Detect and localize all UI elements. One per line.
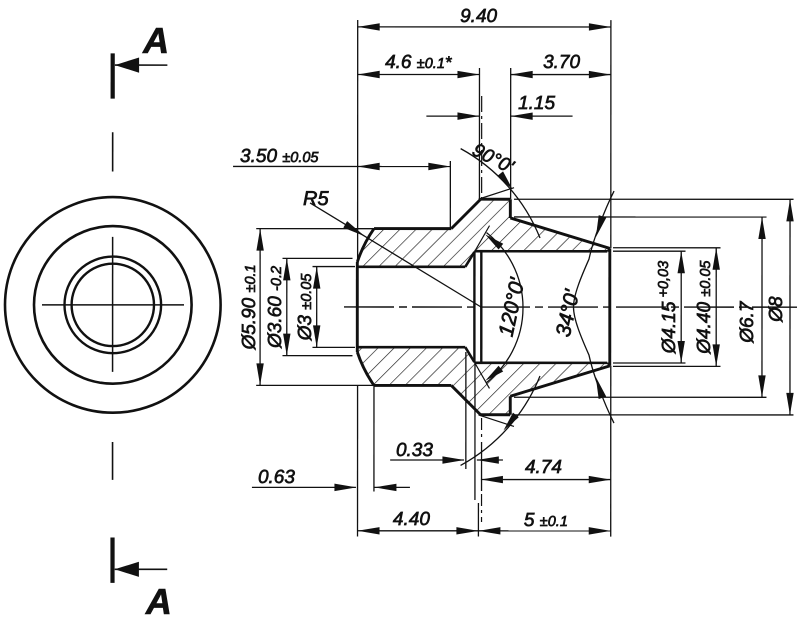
dash-dot ext x=481.6 down [481, 418, 483, 522]
ext line x=479.4 for 4.6 [478, 68, 480, 199]
90 deg flank thin line [479, 188, 514, 200]
dimension 9.40 [358, 26, 611, 28]
90 deg arc [461, 149, 540, 238]
dimension dia4.40 [715, 248, 717, 367]
ext dia6.7 top [514, 216, 767, 218]
bore dia4.15 top line [474, 250, 607, 253]
ext dia4.15 bottom [613, 362, 686, 364]
svg-text:A: A [142, 20, 169, 61]
120 cone chamfer top [465, 252, 474, 267]
34 deg dimension arc [573, 191, 614, 423]
ext dia3.60 bottom [282, 355, 352, 357]
ext line x=478.5 for 4.40/5 junction [477, 503, 479, 537]
svg-text:3.70: 3.70 [543, 52, 580, 73]
svg-text:0.33: 0.33 [396, 440, 433, 461]
cutting plane centerline dash lower [112, 442, 114, 480]
section marker bottom: arrowhead [115, 562, 139, 577]
ext line x=510.6 for 3.70 [510, 68, 512, 199]
120 deg dimension arc [486, 233, 523, 383]
svg-text:1.15: 1.15 [518, 93, 555, 114]
ext line x=479.4 down [474, 363, 476, 500]
dimension 0.33 [390, 459, 464, 461]
ext dia8 top [514, 198, 794, 200]
left view horizontal centerline [42, 304, 184, 306]
R5 leader [310, 203, 480, 307]
left face [356, 262, 359, 352]
right face [608, 248, 611, 365]
vertical drop top [509, 199, 512, 218]
dimension dia3 [316, 267, 318, 348]
120 arc bottom arrowhead [485, 366, 503, 381]
ext line left face up [357, 20, 359, 262]
main horizontal centerline [344, 306, 797, 308]
peak flat bottom [481, 413, 511, 416]
ext line x=374 down [373, 385, 375, 491]
ext dia5.90 bottom [256, 384, 374, 386]
section marker top: arrow line [115, 64, 168, 66]
34 arc top arrowhead [596, 215, 607, 237]
ext line x=481.6 for 4.74 [481, 442, 483, 491]
mouth chamfer top [607, 249, 610, 252]
dimension dia3.60 [286, 258, 288, 355]
svg-text:4.40: 4.40 [393, 509, 430, 530]
dimension 5 +-0.1 [478, 530, 610, 532]
shoulder wall x=481.3 [480, 251, 482, 363]
svg-text:Ø4.40 ±0.05: Ø4.40 ±0.05 [694, 260, 715, 355]
dimension dia5.90 [259, 229, 261, 386]
left view circle dia 5.90 [34, 226, 192, 384]
ext dia4.15 top [613, 250, 686, 252]
90 deg flank thin line bottom [479, 415, 514, 427]
dimension dia6.7 [761, 217, 763, 397]
ext line right face down [610, 366, 612, 537]
svg-text:0.63: 0.63 [258, 467, 295, 488]
90 deg bottom arrowhead [503, 413, 518, 431]
120 cone chamfer bottom [465, 347, 474, 362]
svg-text:A: A [145, 581, 172, 617]
ext dia8 bottom [514, 414, 794, 416]
bore dia3 top line [357, 265, 465, 268]
ext dia3 top [313, 266, 356, 268]
dash-dot ext x=481.6 [481, 96, 483, 199]
peak flat top (dia 8) [481, 198, 511, 201]
120 arc top arrowhead [485, 234, 503, 249]
bottom flat of body [374, 384, 451, 387]
svg-text:5 ±0.1: 5 ±0.1 [524, 510, 568, 531]
svg-text:4.74: 4.74 [525, 457, 562, 478]
120 flank ext line top [474, 226, 489, 252]
svg-text:9.40: 9.40 [460, 6, 497, 27]
shoulder wall x=474.4 [473, 252, 475, 362]
dimension 3.70 [511, 74, 611, 76]
svg-text:4.6 ±0.1*: 4.6 ±0.1* [385, 52, 453, 73]
hatched upper wall [357, 199, 610, 267]
left view vertical centerline [112, 237, 114, 372]
ext dia3 bottom [312, 346, 355, 348]
svg-text:Ø3 ±0.05: Ø3 ±0.05 [295, 273, 316, 342]
bore dia4.15 bottom line [474, 362, 607, 365]
dimension dia4.15 [680, 251, 682, 363]
left view circle dia 3.60 [64, 257, 161, 354]
svg-text:Ø8: Ø8 [766, 296, 787, 323]
hatched lower wall [357, 347, 610, 415]
R5 corner arc top [357, 229, 374, 262]
bore dia3 bottom line [357, 346, 465, 349]
dimension 4.40 [358, 530, 479, 532]
section marker bottom: arrow line [115, 568, 167, 570]
ext dia4.40 top [613, 247, 720, 249]
ext line right face up [610, 20, 612, 248]
120 flank ext line bottom [474, 362, 489, 388]
90 deg arc bottom mirror [461, 376, 540, 465]
ext dia5.90 top [256, 228, 374, 230]
ext dia6.7 bottom [514, 396, 766, 398]
dimension 3.50 +-0.05 [233, 165, 450, 167]
34 arc bottom arrowhead [596, 377, 607, 399]
dimension 1.15 (arrows outside) [426, 115, 479, 117]
R5 corner arc bottom [357, 352, 374, 385]
svg-text:3.50 ±0.05: 3.50 ±0.05 [240, 146, 319, 167]
dimension dia8 [789, 199, 791, 415]
svg-text:Ø4.15 +0,03: Ø4.15 +0,03 [656, 261, 680, 354]
90 deg arc arrowhead [497, 171, 512, 189]
45deg fall bottom [451, 385, 480, 414]
cutting plane centerline dash upper [112, 132, 114, 171]
dimension 4.74 [481, 479, 611, 481]
dimension 4.6 +-0.1* [358, 73, 480, 75]
45deg rise top [451, 199, 480, 228]
svg-text:Ø5.90 ±0.1: Ø5.90 ±0.1 [239, 264, 260, 350]
taper top [510, 218, 610, 248]
vertical drop bottom [509, 396, 512, 415]
ext dia3.60 top [283, 257, 353, 259]
dimension 0.63 [252, 486, 356, 488]
ext dia4.40 bottom [613, 365, 721, 367]
section marker top: arrowhead [115, 58, 139, 73]
section marker bottom: thick tick [110, 537, 114, 582]
top flat of body [374, 227, 451, 230]
svg-text:Ø6.7: Ø6.7 [737, 300, 758, 344]
left view circle dia 3 [72, 264, 154, 346]
ext line x=465.9 down [465, 352, 467, 469]
left view outer circle (flange dia 8) [5, 197, 221, 413]
taper bottom [510, 366, 610, 396]
svg-text:Ø3.60 -0.2: Ø3.60 -0.2 [265, 266, 286, 349]
svg-text:R5: R5 [303, 188, 329, 210]
ext line x=450.3 for 3.50 [449, 161, 451, 229]
section marker top: thick tick [111, 53, 115, 98]
ext line left face down [357, 385, 359, 536]
mouth chamfer bottom [607, 363, 610, 366]
